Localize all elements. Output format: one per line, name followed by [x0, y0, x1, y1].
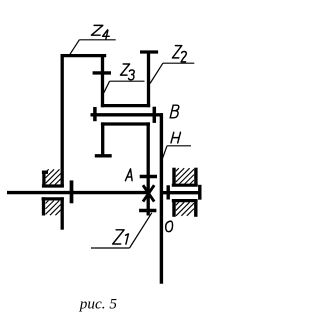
gear Z2 shaft with T-top	[147, 51, 150, 108]
bevel X mark	[143, 185, 154, 201]
label B	[170, 105, 179, 118]
gear Z2 T-bar	[140, 50, 158, 53]
label Z1	[113, 230, 129, 244]
label A	[125, 169, 132, 181]
gear tooth tick on Z4 rim	[93, 71, 111, 74]
left bearing upper hatch	[46, 169, 61, 184]
ring gear Z4 top edge	[61, 54, 107, 57]
right wheel lower rim	[172, 199, 198, 217]
right wheel upper rim	[172, 168, 198, 186]
wheel B cup right leg / bevel column	[147, 122, 150, 215]
left bearing upper box	[42, 171, 64, 188]
bevel top tick	[140, 175, 157, 179]
right stub right cap	[198, 185, 201, 200]
svg-text:рис. 5: рис. 5	[79, 295, 118, 312]
leader line label Z3	[104, 81, 145, 93]
wheel B left leg T-bar	[95, 154, 112, 157]
ring gear Z4 left rim upper	[61, 54, 64, 188]
main vertical shaft H	[160, 113, 163, 284]
left bearing lower hatch	[46, 201, 61, 216]
ring gear Z4 left rim lower	[61, 197, 64, 229]
left bearing lower box	[42, 197, 64, 215]
bevel bottom tick Z1	[139, 209, 156, 213]
leader line label Z4	[69, 40, 115, 56]
label O (point O)	[166, 221, 173, 232]
ring gear Z4 right rim / gear Z3 shaft	[101, 54, 104, 107]
carrier H arm	[91, 113, 164, 116]
gear Z3 cup bottom	[101, 104, 150, 107]
right wheel lower hatch	[176, 202, 194, 216]
label Z2	[172, 46, 186, 62]
gear bar on horizontal shaft	[70, 180, 74, 203]
label H	[171, 132, 181, 143]
right wheel upper hatch	[176, 168, 194, 184]
right stub shaft	[161, 191, 201, 194]
main horizontal shaft	[7, 191, 150, 194]
leader line label Z1	[91, 213, 152, 248]
wheel B cup top	[101, 122, 150, 125]
label Z3	[121, 64, 135, 80]
carrier right end cap	[153, 107, 157, 123]
leader line label Z2	[150, 63, 194, 83]
label Z4	[91, 25, 109, 39]
carrier left end cap	[93, 107, 97, 121]
right stub left cap	[166, 185, 169, 199]
wheel B cup left leg	[101, 122, 104, 157]
leader line label H	[163, 146, 191, 158]
